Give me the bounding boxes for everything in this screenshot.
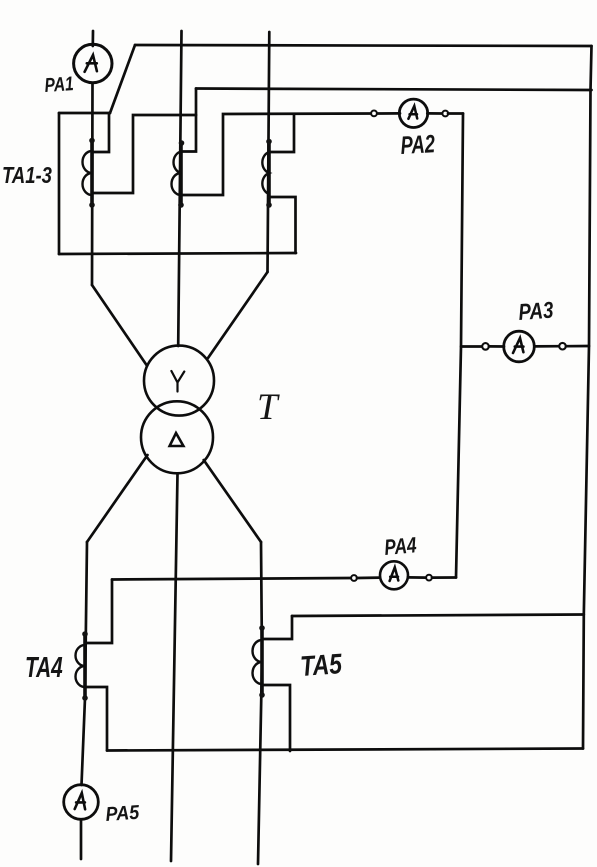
svg-text:PA1: PA1 xyxy=(44,72,75,96)
wire phase A through TA1 to box bottom xyxy=(91,83,94,285)
wire TA4 upper tap xyxy=(85,580,112,644)
wire TA1 upper tap xyxy=(92,113,109,152)
current transformer TA3 xyxy=(267,141,271,205)
wire TA box bottom edge xyxy=(59,253,296,254)
wire TA2 upper tap xyxy=(181,89,196,152)
svg-text:PA4: PA4 xyxy=(383,533,417,560)
ammeter PA1 xyxy=(74,44,112,82)
svg-text:TA5: TA5 xyxy=(299,649,343,683)
wire TA5 lower tap xyxy=(262,685,290,751)
wire TA box left edge xyxy=(58,113,61,254)
transformer T winding Y xyxy=(144,346,214,416)
wire LV middle xyxy=(171,474,178,861)
wire phase A diagonal to Y winding xyxy=(92,285,147,365)
svg-text:PA2: PA2 xyxy=(400,129,436,159)
current transformer TA1 xyxy=(90,140,94,205)
wire TA4 lower tap xyxy=(85,687,107,751)
wire second bus xyxy=(196,89,592,91)
wire LV left diagonal xyxy=(87,455,148,542)
wire phase C xyxy=(268,32,270,272)
ammeter PA4 xyxy=(112,578,351,580)
ammeter PA5 xyxy=(64,785,99,820)
svg-text:TA4: TA4 xyxy=(25,652,63,684)
svg-text:PA5: PA5 xyxy=(105,802,141,826)
current transformer TA2 xyxy=(179,143,183,205)
wire TA box top edge xyxy=(59,112,110,115)
wire right vertical bus xyxy=(583,46,592,749)
current transformer TA5 xyxy=(260,628,264,695)
ammeter PA3 xyxy=(461,345,482,348)
wire bottom bus xyxy=(107,749,583,751)
wire below PA5 xyxy=(80,819,83,859)
transformer T winding D xyxy=(141,401,213,473)
wire LV right vertical xyxy=(258,542,262,864)
svg-text:T: T xyxy=(257,387,280,428)
wire LV right diagonal xyxy=(204,460,261,542)
wire phase C diagonal to Y winding xyxy=(208,272,268,358)
current transformer TA4 xyxy=(83,634,87,698)
svg-text:PA3: PA3 xyxy=(518,298,555,326)
wire PA2 down to PA4 xyxy=(456,114,463,578)
wire top bus xyxy=(135,45,592,46)
wire TA2 lower tap xyxy=(181,114,374,196)
wire PA2 right terminal xyxy=(448,112,463,115)
wire TA5 upper tap xyxy=(262,616,292,639)
wire phase B xyxy=(178,31,181,346)
wire TA1 lower tap xyxy=(92,115,196,193)
wire TA3 lower tap xyxy=(269,197,296,253)
wire diagonal from top bus to TA box xyxy=(110,45,135,113)
svg-text:TA1-3: TA1-3 xyxy=(2,163,52,188)
ammeter PA2 xyxy=(371,111,377,117)
wire LV left vertical xyxy=(82,542,88,785)
wire TA5 bus to right xyxy=(292,615,584,617)
wire TA3 upper tap xyxy=(269,114,294,152)
wire phase A top xyxy=(91,31,94,46)
